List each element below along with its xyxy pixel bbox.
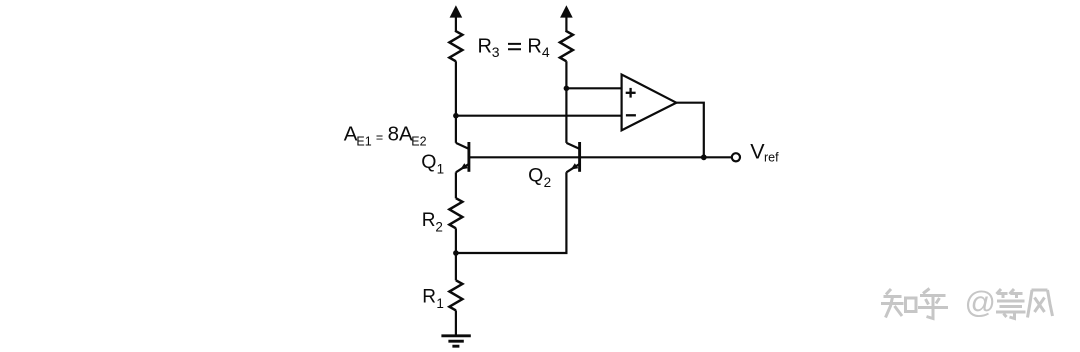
label Q1 bbox=[421, 151, 444, 177]
wire: junction to output terminal bbox=[704, 156, 732, 158]
svg-text:3: 3 bbox=[492, 44, 500, 60]
label R2 bbox=[422, 210, 443, 235]
ground bbox=[441, 336, 470, 346]
svg-text:8A: 8A bbox=[388, 123, 413, 146]
op-amp minus sign bbox=[626, 114, 636, 116]
node D (R1 top / emitter rail junction) bbox=[453, 250, 459, 256]
op-amp plus sign bbox=[626, 88, 636, 98]
wire: emitter rail node D to Q2 emitter bbox=[456, 172, 567, 253]
terminal Vref (open circle) bbox=[732, 153, 740, 161]
svg-text:R: R bbox=[478, 36, 492, 58]
op-amp U1 bbox=[622, 75, 677, 131]
wire: R2 to node D bbox=[455, 228, 457, 253]
node A (left resistor / inverting input junction) bbox=[453, 113, 459, 119]
svg-text:ref: ref bbox=[764, 151, 779, 165]
label R3 = R4 bbox=[478, 36, 550, 60]
svg-text:1: 1 bbox=[436, 296, 444, 311]
wire: node B to op-amp non-inverting input bbox=[566, 87, 621, 89]
transistor Q1 bbox=[456, 142, 469, 198]
wire: op-amp output to Vref junction bbox=[676, 103, 704, 158]
svg-text:E2: E2 bbox=[411, 135, 426, 149]
svg-text:R: R bbox=[527, 36, 541, 58]
svg-text:R: R bbox=[422, 287, 436, 308]
supply arrow right (VCC) bbox=[560, 5, 573, 31]
resistor R2 bbox=[449, 198, 462, 228]
wire: R4 bottom to Q2 collector bbox=[565, 61, 567, 143]
svg-text:E1: E1 bbox=[356, 135, 371, 149]
svg-text:2: 2 bbox=[544, 175, 552, 190]
label Q2 bbox=[528, 165, 551, 191]
svg-text:Q: Q bbox=[421, 151, 436, 173]
svg-text:Q: Q bbox=[528, 165, 543, 187]
wire: R3 bottom to Q1 collector bbox=[455, 61, 457, 143]
resistor R1 bbox=[449, 280, 462, 310]
resistor R3 bbox=[449, 31, 462, 61]
label Vref bbox=[750, 140, 779, 165]
wire: R1 to ground bbox=[455, 310, 457, 335]
node C (Vref junction) bbox=[701, 154, 707, 160]
svg-text:=: = bbox=[376, 131, 383, 145]
label AE1 = 8AE2 bbox=[344, 123, 427, 149]
transistor Q2 bbox=[566, 142, 579, 172]
node B (right resistor / non-inverting input junction) bbox=[564, 86, 570, 92]
svg-text:2: 2 bbox=[435, 220, 443, 235]
wire: node D to R1 bbox=[455, 253, 457, 280]
svg-text:4: 4 bbox=[542, 44, 550, 60]
wire: node A to op-amp inverting input bbox=[456, 115, 622, 117]
watermark 知乎 @等风 bbox=[881, 289, 1053, 319]
svg-text:R: R bbox=[422, 210, 436, 231]
label R1 bbox=[422, 287, 444, 312]
supply arrow left (VCC) bbox=[450, 5, 463, 31]
wire: base rail Q1-Q2 to output bbox=[469, 156, 704, 158]
resistor R4 bbox=[560, 31, 573, 61]
svg-text:1: 1 bbox=[437, 162, 445, 177]
svg-text:@: @ bbox=[965, 285, 996, 320]
